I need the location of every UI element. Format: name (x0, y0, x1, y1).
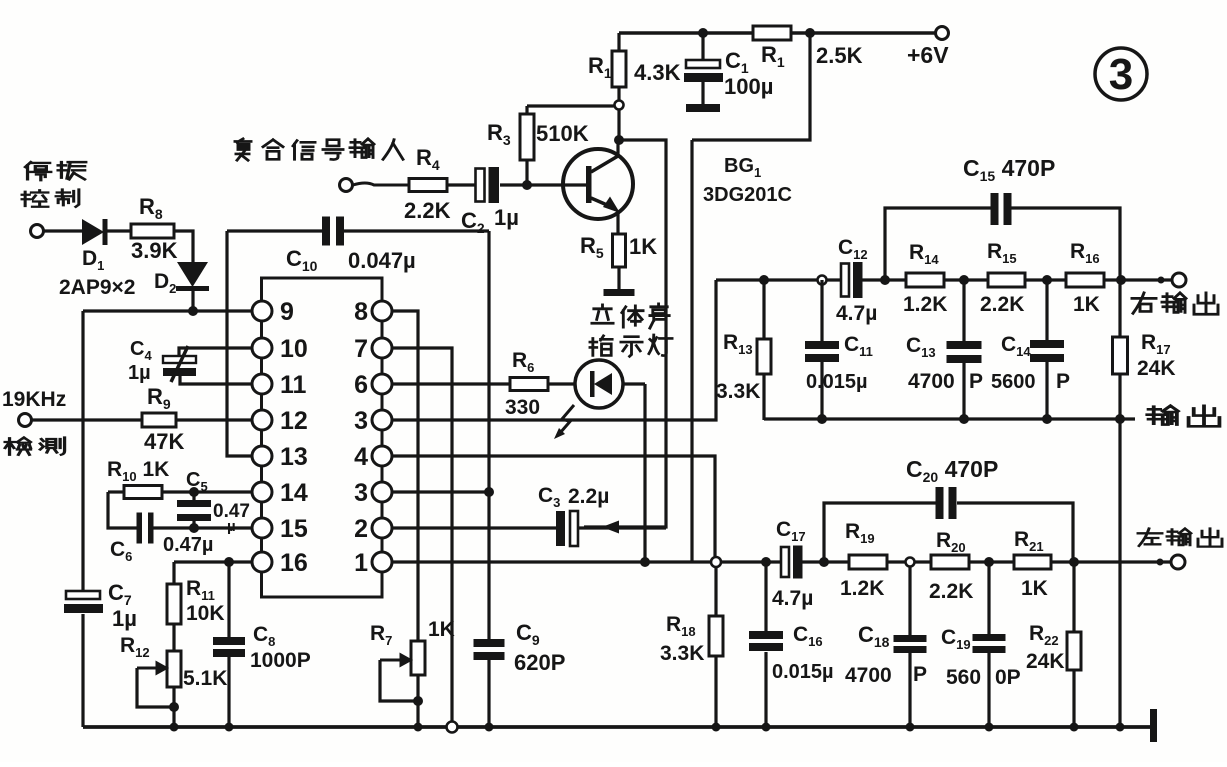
node C11 (open) (818, 276, 827, 285)
node collector feed (open junction) (615, 101, 624, 110)
wire collector vertical (617, 110, 620, 140)
pin 6 (right) (372, 374, 392, 394)
wire R16 to output terminal (1104, 278, 1172, 281)
wire pin3b to tap (392, 490, 489, 493)
node LED drop (640, 557, 650, 567)
capacitor C10 0.047u (227, 217, 489, 275)
wire C2 to base (500, 183, 527, 186)
pin 1 (right) (372, 552, 392, 572)
node rail pin7 (open) (447, 722, 458, 733)
node C19 (984, 557, 994, 567)
node rail x418 (414, 723, 423, 732)
svg-text:2.2K: 2.2K (980, 293, 1024, 316)
potentiometer R12 5.1K (120, 634, 227, 727)
wire pin9 line (83, 309, 252, 312)
wire common down to rail (1118, 419, 1121, 727)
pin 3 (right) (372, 410, 392, 430)
node rail x174 (170, 723, 179, 732)
svg-text:3DG201C: 3DG201C (703, 184, 792, 206)
capacitor C3 2.2u (556, 511, 666, 546)
label stop-oscillation control (22, 162, 86, 207)
pin 14 (left) (252, 482, 272, 502)
node R17 bottom (1115, 414, 1125, 424)
svg-text:1000P: 1000P (250, 649, 311, 672)
capacitor C7 1u (in series, left column) (66, 591, 100, 599)
node C15 right / R17 (1116, 275, 1126, 285)
wire LED drop to left line (643, 384, 646, 562)
resistor R19 1.2K (840, 520, 887, 600)
node rail x489 (485, 723, 494, 732)
node C20 left (819, 557, 829, 567)
node R13 top (759, 275, 769, 285)
node C18 (open) (906, 558, 915, 567)
capacitor C5 0.47u (177, 469, 250, 535)
svg-text:1: 1 (354, 549, 368, 577)
capacitor C11 0.015u (805, 280, 873, 419)
capacitor C12 4.7u (836, 236, 877, 325)
resistor R13 3.3K (716, 280, 771, 420)
svg-text:15: 15 (280, 515, 308, 543)
svg-text:2: 2 (354, 515, 368, 543)
node C15 left (880, 275, 890, 285)
+6V terminal (936, 27, 949, 40)
wire 2.5K drop to pin1 net (692, 33, 810, 140)
wire terminal to D1 (44, 229, 82, 232)
wire C17 to R19 (801, 560, 849, 563)
pin 7 (right) (372, 338, 392, 358)
node rail x1074 (1070, 723, 1079, 732)
resistor R17 24K (1113, 280, 1176, 419)
pin 15 (left) (252, 518, 272, 538)
svg-text:3.9K: 3.9K (131, 238, 178, 263)
wire R8 to D2 (174, 231, 193, 262)
svg-text:P: P (969, 370, 983, 393)
capacitor C14 5600P (991, 280, 1070, 419)
svg-text:P: P (913, 663, 927, 686)
svg-text:0.015µ: 0.015µ (772, 661, 834, 683)
wire pin2 to C3 (392, 526, 557, 529)
label right output (1132, 293, 1218, 314)
wire left column x83 (81, 311, 84, 592)
svg-text:3.3K: 3.3K (716, 380, 760, 403)
capacitor C8 1000P (213, 562, 311, 727)
pin 3 (right) (372, 482, 392, 502)
resistor R16 1K (1066, 240, 1104, 316)
wire input to R4 (353, 183, 409, 185)
svg-text:10K: 10K (186, 602, 225, 625)
wire pin14 left drop (108, 492, 137, 528)
node C5 top (189, 487, 199, 497)
wire +6V top rail (619, 31, 936, 35)
resistor R4 2.2K (404, 179, 451, 224)
wire R9 to pin12 (176, 418, 252, 421)
capacitor C13 4700P (906, 280, 983, 419)
wire junction to C1 (698, 28, 708, 38)
svg-text:620P: 620P (514, 650, 565, 675)
svg-text:12: 12 (280, 407, 308, 435)
svg-text:+6V: +6V (907, 42, 949, 68)
label stereo indicator lamp (590, 304, 672, 356)
capacitor C4 1u (163, 346, 196, 382)
pin 9 (left) (252, 301, 272, 321)
svg-text:7: 7 (354, 335, 368, 363)
wire pin10 (179, 348, 252, 356)
wire right channel input line (716, 278, 845, 281)
capacitor C9 620P (474, 639, 505, 647)
svg-text:C20 470P: C20 470P (906, 456, 998, 485)
LED stereo indicator (575, 360, 645, 408)
resistor R9 47K (142, 384, 184, 454)
label composite signal input (235, 139, 403, 160)
resistor R10 1K (107, 458, 252, 499)
svg-text:560: 560 (946, 666, 981, 689)
svg-text:C15 470P: C15 470P (963, 155, 1055, 184)
node 2.5K right (805, 28, 815, 38)
node C16 (761, 557, 771, 567)
node R22/C20 (1069, 557, 1079, 567)
node rail x910 (906, 723, 915, 732)
svg-text:47K: 47K (144, 429, 184, 454)
wire C9 to rail (487, 660, 490, 727)
ground (C1) (686, 104, 720, 112)
capacitor C15 470P (885, 155, 1120, 280)
pin 10 (left) (252, 338, 272, 358)
svg-text:5.1K: 5.1K (183, 667, 227, 690)
capacitor C6 0.47u (110, 513, 252, 565)
diode D2 (vertical) (176, 262, 209, 311)
capacitor C1 100u (electrolytic to ground) (684, 33, 723, 104)
capacitor C19 5600P (941, 562, 1021, 727)
svg-text:2.2K: 2.2K (929, 580, 973, 603)
svg-text:2.2µ: 2.2µ (568, 485, 609, 508)
wire pin16 (174, 560, 252, 563)
node pin16 (224, 557, 234, 567)
transistor BG1 3DG201C (527, 140, 633, 234)
lightning arrow (560, 405, 574, 433)
svg-text:0.47µ: 0.47µ (163, 534, 213, 556)
svg-text:10: 10 (280, 335, 308, 363)
arrow into C3 (602, 521, 619, 534)
svg-text:510K: 510K (536, 121, 589, 146)
wire C4 to pin11 (180, 376, 252, 384)
resistor R8 3.9K (131, 194, 178, 263)
resistor R3 510K (487, 106, 615, 185)
resistor R1 4.3K (vertical) (588, 33, 681, 100)
svg-text:1.2K: 1.2K (903, 293, 947, 316)
svg-text:330: 330 (505, 396, 540, 419)
resistor R20 2.2K (929, 529, 973, 603)
svg-text:4.7µ: 4.7µ (836, 302, 877, 325)
resistor R18 3.3K (660, 567, 723, 727)
wire pin4 drop (392, 456, 715, 562)
svg-text:2.5K: 2.5K (816, 43, 863, 68)
svg-text:14: 14 (280, 479, 308, 507)
pin 2 (right) (372, 518, 392, 538)
label output common (1147, 406, 1219, 427)
small dot before terminal (1157, 559, 1164, 566)
wire 19KHz to R9 (32, 418, 142, 421)
wire pin8 to R7 (392, 311, 418, 641)
pin 12 (left) (252, 410, 272, 430)
svg-text:2.2K: 2.2K (404, 198, 451, 223)
node D2 / pin9 (188, 306, 198, 316)
svg-text:16: 16 (280, 549, 308, 577)
svg-text:1K: 1K (1021, 577, 1048, 600)
svg-text:1µ: 1µ (494, 205, 519, 230)
resistor R5 1K (580, 233, 657, 289)
svg-text:3: 3 (354, 407, 368, 435)
svg-text:1.2K: 1.2K (840, 577, 884, 600)
svg-text:1µ: 1µ (112, 606, 137, 631)
node C5 bottom (189, 523, 199, 533)
node C11 bottom (817, 414, 827, 424)
page number 3 (1095, 48, 1147, 100)
node rail x766 (762, 723, 771, 732)
node base (R3/C2) (522, 180, 532, 190)
svg-text:P: P (1056, 370, 1070, 393)
pin 4 (right) (372, 446, 392, 466)
svg-text:9: 9 (280, 298, 294, 326)
wire vertical x692 down to left channel line (690, 140, 693, 562)
pin 11 (left) (252, 374, 272, 394)
wire output common line (764, 417, 1135, 420)
svg-text:6: 6 (354, 371, 368, 399)
node C14 bottom (1042, 414, 1052, 424)
terminal stop-osc (31, 225, 44, 238)
svg-text:11: 11 (280, 371, 307, 399)
svg-text:4700: 4700 (845, 664, 892, 687)
input terminal (340, 179, 353, 192)
svg-text:3: 3 (354, 479, 368, 507)
svg-text:13: 13 (280, 443, 308, 471)
capacitor C17 4.7u (772, 518, 813, 610)
wire pin3a to net (392, 280, 716, 420)
wire collector to C3 branch (x667) (584, 140, 666, 527)
node C13 (959, 275, 969, 285)
terminal left output (1171, 555, 1185, 569)
IC body (262, 278, 383, 597)
rail end tick (1150, 709, 1157, 742)
svg-text:24K: 24K (1137, 357, 1176, 380)
wire C10 left to pin13 (227, 231, 252, 456)
wire R21 to output terminal (1051, 560, 1171, 563)
svg-text:4.7µ: 4.7µ (772, 587, 813, 610)
small dot before right terminal (1158, 277, 1165, 284)
pin 8 (right) (372, 301, 392, 321)
svg-text:4: 4 (354, 443, 368, 471)
wire C12 to R14 (862, 278, 906, 281)
ground (R5) (604, 289, 635, 296)
resistor R14 1.2K (903, 241, 947, 316)
wire R19 to R20 (887, 560, 931, 563)
node collector (614, 135, 624, 145)
wire R15 to R16 (1025, 278, 1066, 281)
svg-text:100µ: 100µ (724, 74, 773, 99)
potentiometer R7 1K (370, 618, 455, 727)
svg-text:1K: 1K (629, 234, 657, 259)
svg-text:2AP9×2: 2AP9×2 (59, 276, 135, 299)
wire C10 right down to C9 (487, 231, 490, 639)
svg-text:5600: 5600 (991, 371, 1036, 393)
node C13 bottom (959, 414, 969, 424)
node pin3b tap (484, 487, 494, 497)
wire ground rail (83, 725, 1152, 729)
svg-text:0.015µ: 0.015µ (806, 371, 868, 393)
wire pin7 down to rail (392, 348, 452, 727)
wire R14 to R15 (944, 278, 988, 281)
svg-text:3: 3 (1109, 50, 1133, 99)
capacitor C2 1u (461, 167, 519, 236)
capacitor C18 4700P (845, 567, 927, 727)
svg-text:24K: 24K (1026, 650, 1065, 673)
svg-text:0P: 0P (995, 666, 1021, 689)
terminal right output (1172, 273, 1186, 287)
capacitor C16 0.015u (749, 562, 834, 727)
wire C7 to ground rail (81, 614, 84, 727)
node C14 (1042, 275, 1052, 285)
svg-text:0.047µ: 0.047µ (348, 248, 416, 273)
resistor R1 2.5K (horizontal, top) (753, 26, 863, 70)
terminal 19KHz (19, 414, 32, 427)
wire R20 to R21 (969, 560, 1014, 563)
label left output (1138, 529, 1222, 547)
resistor R6 330 (392, 349, 575, 419)
svg-text:19KHz: 19KHz (2, 388, 66, 411)
svg-text:1K: 1K (1073, 293, 1100, 316)
capacitor C20 470P (824, 456, 1073, 562)
node rail x989 (985, 723, 994, 732)
svg-text:4700: 4700 (908, 370, 955, 393)
svg-text:1µ: 1µ (128, 362, 151, 384)
resistor R21 1K (1014, 528, 1051, 600)
node rail x229 (225, 723, 234, 732)
node rail x716 (712, 723, 721, 732)
pin 16 (left) (252, 552, 272, 572)
pin 13 (left) (252, 446, 272, 466)
resistor R11 10K (167, 562, 225, 651)
diode D1 2AP9 (82, 219, 131, 245)
svg-text:3.3K: 3.3K (660, 642, 704, 665)
svg-text:R10 1K: R10 1K (107, 458, 169, 484)
resistor R15 2.2K (980, 240, 1025, 316)
resistor R22 24K (1026, 562, 1081, 727)
wire R4 to C2 (447, 183, 477, 186)
node rail x1120 (1116, 723, 1125, 732)
svg-text:8: 8 (354, 298, 368, 326)
svg-text:4.3K: 4.3K (634, 60, 681, 85)
node pin4/R18 (open) (711, 557, 721, 567)
wire pin1 / left channel line (392, 560, 784, 563)
